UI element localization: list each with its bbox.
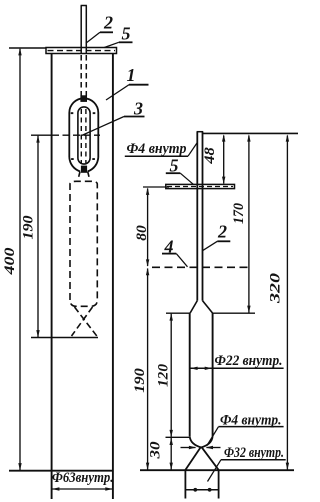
float 3 inner capsule bbox=[78, 107, 90, 164]
skirt left wall bbox=[184, 470, 186, 499]
neck and cone right profile bbox=[185, 436, 212, 470]
callout 4 leader bbox=[176, 254, 187, 267]
wire: shoulder extension right bbox=[212, 312, 255, 314]
svg-text:2: 2 bbox=[103, 13, 113, 33]
svg-text:400: 400 bbox=[2, 248, 18, 276]
svg-text:4: 4 bbox=[164, 237, 174, 257]
label F22 dimension line with underline bbox=[190, 367, 284, 369]
hidden hydrometer tail cross line B bbox=[72, 307, 93, 336]
svg-text:Ф4 внутр: Ф4 внутр bbox=[127, 141, 187, 157]
tube 2R left wall bbox=[196, 132, 198, 301]
callout 2L leader bbox=[86, 32, 100, 43]
wire: disc extension left bbox=[143, 186, 169, 188]
svg-text:170: 170 bbox=[231, 203, 247, 224]
F22 arrow right bbox=[205, 367, 212, 370]
svg-text:2: 2 bbox=[217, 222, 227, 242]
callout 2R leader bbox=[202, 241, 217, 251]
callout 5L leader bbox=[104, 42, 119, 47]
tube 2R flare right bbox=[203, 301, 213, 313]
float 3 tick upper left bbox=[71, 112, 74, 114]
arrow down 400 bbox=[18, 463, 21, 470]
label F32 leader bbox=[208, 460, 222, 482]
float 3 pinch neck right bbox=[88, 172, 89, 177]
lid 5 dashed midline bbox=[48, 50, 116, 52]
F22 arrow left bbox=[190, 367, 197, 370]
svg-text:Ф22 внутр.: Ф22 внутр. bbox=[215, 353, 283, 369]
svg-text:48: 48 bbox=[202, 146, 218, 164]
arrow down 320 bbox=[286, 463, 289, 470]
dimension 120 line bbox=[170, 314, 172, 437]
float 3 outer bottom right curve bbox=[88, 158, 99, 172]
float 3 outer capsule bbox=[69, 98, 98, 157]
callout 5L underline bbox=[119, 41, 133, 43]
callout 2R underline bbox=[217, 240, 230, 242]
arrow up 320 bbox=[286, 134, 289, 141]
arrow down 30 bbox=[170, 463, 173, 470]
svg-text:5: 5 bbox=[122, 24, 131, 44]
wire: top extension line left figure bbox=[9, 47, 46, 49]
callout 5R leader bbox=[180, 173, 193, 184]
disc 5R dashed midline bbox=[167, 186, 233, 188]
arrow down 48 bbox=[222, 177, 225, 184]
wire: vessel bottom extension bbox=[166, 436, 190, 438]
dimension 190R line bbox=[147, 269, 149, 470]
arrow up 190R bbox=[146, 268, 149, 275]
dimension 48 line bbox=[223, 136, 225, 184]
svg-text:3: 3 bbox=[133, 99, 143, 119]
wire: top extension line right figure bbox=[203, 132, 298, 134]
wire: 190L bottom extension bbox=[31, 337, 98, 339]
arrow down 170 bbox=[247, 306, 250, 313]
arrow up 30 bbox=[170, 438, 173, 445]
arrow down 190R bbox=[146, 463, 149, 470]
arrow up 190L bbox=[36, 135, 39, 142]
svg-text:5: 5 bbox=[170, 156, 179, 176]
float 3 tick lower left bbox=[71, 158, 74, 160]
wire: 190L centerline dashed through float bbox=[52, 134, 100, 136]
dot right F32 bbox=[208, 488, 212, 492]
vessel V right wall bbox=[212, 313, 214, 436]
wire: 190L top extension solid bbox=[31, 134, 51, 136]
arrow down 190L bbox=[36, 330, 39, 337]
hidden hydrometer body dashed outline bbox=[70, 181, 97, 306]
dimension F63 line bbox=[52, 488, 113, 490]
callout 3 leader bbox=[81, 117, 125, 137]
svg-text:Ф63внутр.: Ф63внутр. bbox=[52, 470, 114, 486]
arrow up 48 bbox=[222, 134, 225, 141]
dimension 400 line bbox=[19, 49, 21, 470]
callout 1 underline bbox=[129, 84, 149, 86]
tube 2 hidden left wall dashed bbox=[80, 55, 82, 96]
float 3 bottom tube-end blob bbox=[81, 166, 87, 173]
arrow up 120 bbox=[170, 313, 173, 320]
skirt right wall bbox=[218, 470, 220, 499]
svg-text:120: 120 bbox=[156, 364, 172, 387]
wire: cylinder inner bottom line bbox=[9, 470, 113, 472]
arrow up 170 bbox=[247, 134, 250, 141]
float 3 tick lower right bbox=[92, 158, 95, 160]
arrow down 120 bbox=[170, 430, 173, 437]
label F4bot leader bbox=[207, 427, 218, 446]
dimension 190 left line bbox=[37, 136, 39, 337]
wire: baseline right figure bbox=[140, 469, 294, 471]
F4 waist arrow right bbox=[207, 447, 221, 449]
label F4top leader bbox=[188, 143, 197, 157]
lid 5 plate bbox=[46, 48, 117, 54]
tube 2R top cap bbox=[197, 131, 204, 133]
svg-text:1: 1 bbox=[127, 65, 136, 85]
callout 2L underline bbox=[100, 31, 113, 33]
callout 1 leader bbox=[106, 85, 129, 100]
arrow up 400 bbox=[18, 48, 21, 55]
svg-text:80: 80 bbox=[134, 225, 150, 241]
level line 4 dashed bbox=[152, 266, 248, 268]
cylinder C1 right wall bbox=[112, 54, 114, 500]
dimension 170 line bbox=[248, 136, 250, 313]
float 3 inner dashed tube left bbox=[80, 109, 82, 163]
vessel V left wall bbox=[189, 313, 191, 436]
float 3 outer bottom left curve bbox=[69, 158, 80, 172]
tube 2 top cap bbox=[81, 5, 87, 7]
tube 2R right wall bbox=[202, 132, 204, 301]
callout 5R underline bbox=[166, 172, 181, 174]
float 3 tick upper right bbox=[93, 112, 96, 114]
tube 2 right wall above lid bbox=[85, 6, 87, 54]
tube 2 hidden right wall dashed bbox=[85, 55, 87, 96]
svg-text:190: 190 bbox=[21, 216, 37, 240]
callout 4 underline bbox=[162, 253, 176, 255]
float 3 pinch neck left bbox=[79, 172, 80, 177]
svg-text:190: 190 bbox=[132, 368, 148, 393]
wire: shoulder extension left bbox=[166, 312, 190, 314]
cylinder C1 left wall bbox=[51, 54, 53, 500]
hidden hydrometer tail cross line A bbox=[75, 307, 97, 336]
arrow down 80 bbox=[146, 259, 149, 266]
svg-text:Ф4 внутр.: Ф4 внутр. bbox=[220, 413, 282, 429]
neck and cone left profile bbox=[190, 436, 219, 470]
dot left F32 bbox=[193, 488, 197, 492]
dimension F32 bottom line bbox=[186, 489, 218, 491]
arrow left F63 bbox=[52, 487, 59, 490]
tube 2 joint segment solid bbox=[81, 96, 87, 102]
label F4top underline bbox=[125, 155, 188, 157]
svg-text:Ф32 внутр.: Ф32 внутр. bbox=[224, 445, 284, 461]
disc 5R plate bbox=[166, 184, 235, 188]
tube 2 left wall above lid bbox=[80, 6, 82, 54]
label F4bot underline bbox=[218, 426, 283, 428]
float 3 inner dashed tube right bbox=[85, 109, 87, 163]
dimension 30 line bbox=[170, 438, 172, 470]
dimension 80 line bbox=[147, 189, 149, 267]
svg-text:320: 320 bbox=[268, 273, 284, 304]
callout 3 underline bbox=[124, 116, 145, 118]
dimension 320 line bbox=[286, 136, 288, 470]
arrow right F63 bbox=[105, 487, 112, 490]
label F32 underline bbox=[221, 459, 286, 461]
F4 waist arrow left bbox=[181, 447, 196, 449]
tube 2R flare left bbox=[190, 301, 197, 313]
arrow up 80 bbox=[146, 188, 149, 195]
svg-text:30: 30 bbox=[148, 442, 164, 460]
